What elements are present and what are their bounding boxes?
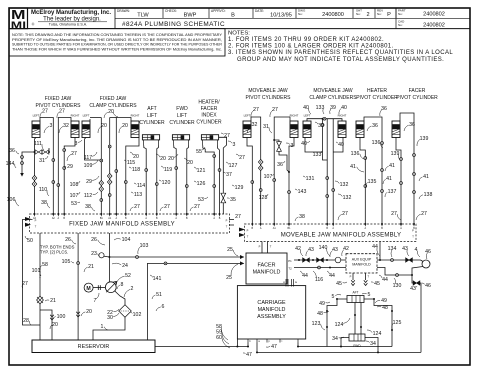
svg-text:CYLINDER: CYLINDER: [196, 120, 222, 126]
svg-text:21: 21: [88, 264, 94, 270]
svg-text:58: 58: [42, 262, 48, 268]
svg-text:P: P: [247, 228, 249, 232]
MJ pivot relief branch: [274, 140, 279, 142]
svg-text:10/13/95: 10/13/95: [270, 13, 292, 19]
wire MJ pivot left bottom: [247, 138, 252, 225]
svg-text:47: 47: [271, 344, 277, 350]
svg-text:144: 144: [6, 161, 15, 167]
svg-text:132: 132: [340, 182, 349, 188]
svg-text:P: P: [350, 275, 352, 279]
svg-text:124: 124: [373, 331, 382, 337]
svg-text:40: 40: [303, 105, 309, 111]
carriage top port marks: [285, 279, 287, 287]
svg-text:29: 29: [86, 179, 92, 185]
wire FJ manifold P column to pump: [108, 233, 110, 282]
wire MJ clamp center drop: [322, 119, 324, 152]
svg-text:DRAWN:: DRAWN:: [117, 9, 130, 13]
svg-text:136: 136: [372, 140, 381, 146]
pivot crossover check valve block: [35, 151, 50, 153]
svg-text:111: 111: [34, 141, 42, 147]
svg-text:2. FOR ITEMS 100 & LARGER: 2. FOR ITEMS 100 & LARGER ORDER KIT A240…: [228, 44, 394, 50]
svg-text:TLW: TLW: [137, 13, 149, 19]
svg-text:5: 5: [332, 294, 335, 300]
svg-text:112: 112: [84, 193, 92, 199]
svg-text:129: 129: [235, 185, 244, 191]
svg-text:3: 3: [75, 141, 78, 147]
svg-text:120: 120: [162, 180, 171, 186]
branch to reservoir with arrows item 100: [40, 310, 52, 340]
svg-text:AFT: AFT: [147, 106, 156, 112]
svg-text:45: 45: [374, 281, 380, 287]
wire AFT lift legs: [144, 146, 146, 215]
wire FJ pivot left top port: [40, 118, 53, 215]
svg-text:101: 101: [32, 268, 41, 274]
svg-text:FWD: FWD: [353, 344, 361, 348]
wire FJ clamp left bottom port: [85, 138, 102, 161]
svg-text:FWD: FWD: [176, 106, 188, 112]
wire FJ clamp right bottom port: [126, 138, 139, 215]
svg-text:55: 55: [196, 149, 202, 155]
svg-text:25: 25: [227, 247, 233, 253]
svg-text:119: 119: [164, 167, 172, 173]
wire facer pivot top: [400, 113, 414, 224]
svg-text:41: 41: [423, 174, 429, 180]
cylinder heater/facer index: [201, 135, 218, 146]
cylinder facer pivot: [392, 121, 400, 138]
cylinder moveable jaw clamp right: [338, 121, 346, 138]
logo box MMI: [9, 8, 27, 29]
svg-text:135: 135: [368, 179, 377, 185]
svg-text:DATE:: DATE:: [255, 9, 264, 13]
svg-text:130: 130: [393, 283, 402, 289]
svg-text:27: 27: [59, 109, 65, 115]
svg-text:20: 20: [101, 123, 107, 129]
carriage circuit wires: [327, 299, 347, 347]
svg-text:45: 45: [336, 281, 342, 287]
svg-text:124: 124: [335, 322, 344, 328]
svg-text:20: 20: [52, 322, 58, 328]
wire heater pivot bottom: [360, 138, 365, 225]
svg-text:27: 27: [342, 211, 348, 217]
svg-text:38: 38: [85, 204, 91, 210]
svg-text:FIXED JAW: FIXED JAW: [100, 96, 127, 102]
svg-text:133: 133: [313, 152, 322, 158]
svg-text:P: P: [387, 12, 391, 18]
wire facer pivot bottom: [396, 138, 401, 225]
svg-text:139: 139: [420, 136, 429, 142]
svg-text:132: 132: [343, 195, 352, 201]
svg-text:23: 23: [91, 251, 97, 257]
svg-text:48: 48: [382, 305, 388, 311]
svg-text:No:: No:: [298, 12, 303, 16]
svg-text:31: 31: [263, 124, 269, 130]
svg-text:121: 121: [197, 168, 206, 174]
svg-text:27: 27: [134, 204, 140, 210]
svg-text:102: 102: [133, 312, 142, 318]
svg-text:2400802: 2400802: [423, 23, 445, 29]
svg-text:P: P: [226, 218, 228, 222]
svg-text:136: 136: [351, 151, 360, 157]
wire heater/facer index legs: [203, 146, 214, 215]
svg-text:27: 27: [42, 109, 48, 115]
MJ manifold stub down to aux line: [379, 242, 381, 261]
moveable jaw manifold assembly box: [244, 224, 416, 242]
svg-text:104: 104: [122, 237, 131, 243]
wire FJ clamp right top port: [116, 118, 131, 215]
svg-text:FIXED JAW: FIXED JAW: [45, 96, 72, 102]
pump item 52: [105, 282, 116, 293]
svg-text:No:: No:: [398, 23, 403, 27]
svg-text:SUBMITTED TO OUTSIDE PARTIE: SUBMITTED TO OUTSIDE PARTIES FOR EXAMINA…: [12, 43, 222, 47]
svg-text:134: 134: [388, 246, 397, 252]
svg-text:MI: MI: [11, 20, 27, 31]
svg-text:20: 20: [86, 309, 92, 315]
check valve item 21 on drain: [37, 296, 44, 304]
svg-text:36: 36: [277, 162, 283, 168]
svg-text:43: 43: [332, 247, 338, 253]
svg-text:RESERVOIR: RESERVOIR: [78, 344, 110, 350]
svg-text:2: 2: [131, 286, 134, 292]
svg-text:106: 106: [7, 197, 16, 203]
svg-text:NOTE: THIS DRAWING AND THE: NOTE: THIS DRAWING AND THE INFORMATION C…: [12, 33, 223, 37]
wire MJ pivot left top: [251, 117, 261, 224]
svg-text:41: 41: [389, 163, 395, 169]
svg-text:20: 20: [168, 156, 174, 162]
svg-text:RIGHT: RIGHT: [71, 113, 80, 117]
svg-text:36: 36: [409, 122, 415, 128]
svg-text:140: 140: [319, 245, 328, 251]
svg-text:CYLINDER: CYLINDER: [139, 120, 165, 126]
svg-text:2400800: 2400800: [322, 12, 344, 18]
svg-text:41: 41: [386, 176, 392, 182]
svg-text:MOVEABLE JAW MANIFOLD ASSEMBLY: MOVEABLE JAW MANIFOLD ASSEMBLY: [281, 232, 402, 238]
drain to reservoir: [93, 317, 125, 340]
svg-text:128: 128: [259, 195, 268, 201]
svg-text:PIVOT CYLINDER: PIVOT CYLINDER: [356, 95, 398, 101]
svg-text:43: 43: [308, 247, 314, 253]
svg-text:3. ITEMS SHOWN IN PARENTHE: 3. ITEMS SHOWN IN PARENTHESIS REFLECT QU…: [228, 50, 453, 56]
svg-text:P: P: [259, 245, 261, 249]
svg-text:McElroy Manufacturing, Inc.: McElroy Manufacturing, Inc.: [31, 10, 111, 16]
svg-text:44: 44: [329, 273, 335, 279]
svg-text:28: 28: [23, 318, 29, 324]
carriage bottom ports: [247, 339, 249, 343]
svg-text:127: 127: [229, 163, 238, 169]
svg-text:P: P: [412, 228, 414, 232]
svg-text:FIXED JAW MANIFOLD ASSEMBLY: FIXED JAW MANIFOLD ASSEMBLY: [69, 222, 175, 228]
svg-text:AUX EQUIP: AUX EQUIP: [352, 258, 372, 262]
svg-text:TYP. (2) PLCS.: TYP. (2) PLCS.: [40, 250, 68, 255]
svg-text:41: 41: [350, 164, 356, 170]
svg-text:CYLINDER: CYLINDER: [169, 120, 195, 126]
aft carriage hose: [347, 296, 364, 303]
wire heater pivot top: [364, 117, 382, 224]
gauge item 23: [104, 255, 109, 258]
wire FJ manifold left P line down: [23, 220, 41, 326]
aux P line right to coupling: [377, 259, 421, 261]
svg-text:NOTES:: NOTES:: [228, 30, 250, 36]
svg-text:43: 43: [410, 286, 416, 292]
svg-text:40: 40: [301, 141, 307, 147]
svg-text:FACER: FACER: [201, 106, 218, 112]
svg-text:27: 27: [164, 204, 170, 210]
cylinder fixed jaw pivot right: [71, 121, 79, 138]
svg-text:108: 108: [70, 182, 79, 188]
wire FJ clamp A1 column: [109, 118, 111, 215]
svg-text:#824A PLUMBING SCHEMATIC: #824A PLUMBING SCHEMATIC: [122, 21, 225, 28]
svg-text:117: 117: [84, 155, 92, 161]
svg-text:39: 39: [330, 105, 336, 111]
svg-text:50: 50: [27, 238, 33, 244]
svg-text:109: 109: [84, 163, 93, 169]
svg-text:126: 126: [197, 181, 206, 187]
wire relief line right of index cylinder: [219, 137, 227, 214]
wire MJ pivot right bottom: [289, 138, 294, 225]
cylinder aft lift: [142, 135, 159, 146]
svg-text:47: 47: [246, 352, 252, 358]
svg-text:39: 39: [318, 123, 324, 129]
svg-text:36: 36: [9, 148, 15, 154]
proprietary note box: [9, 29, 225, 56]
svg-text:6: 6: [162, 304, 165, 310]
fixed jaw manifold assembly box: [30, 214, 230, 233]
svg-text:20: 20: [160, 156, 166, 162]
svg-text:LIFT: LIFT: [177, 113, 187, 119]
wire FJ clamp left column: [100, 118, 102, 215]
svg-text:LEFT: LEFT: [244, 113, 251, 117]
svg-text:FACER: FACER: [258, 263, 276, 269]
left drain chain items 36/144: [22, 152, 35, 173]
svg-text:118: 118: [132, 167, 140, 173]
svg-text:2: 2: [366, 12, 369, 18]
svg-text:53: 53: [71, 201, 77, 207]
svg-text:42: 42: [295, 246, 301, 252]
svg-text:31: 31: [39, 158, 45, 164]
svg-text:30: 30: [107, 315, 113, 321]
svg-text:RIGHT: RIGHT: [290, 113, 299, 117]
svg-text:No:: No:: [377, 12, 382, 16]
svg-text:46: 46: [425, 283, 431, 289]
svg-text:26: 26: [91, 237, 97, 243]
svg-text:27: 27: [194, 204, 200, 210]
svg-text:FACER: FACER: [409, 88, 426, 94]
svg-text:34: 34: [370, 341, 376, 347]
svg-text:T2: T2: [288, 267, 292, 271]
svg-text:40: 40: [338, 142, 344, 148]
aux equip manifold box: [346, 254, 377, 273]
svg-text:29: 29: [67, 164, 73, 170]
svg-text:27: 27: [253, 107, 259, 113]
wire FJ manifold T column: [77, 233, 79, 340]
svg-text:No:: No:: [398, 12, 403, 16]
svg-text:24: 24: [122, 263, 128, 269]
title block outline: [9, 28, 470, 30]
cylinder moveable jaw pivot left: [243, 121, 251, 138]
svg-text:27: 27: [391, 211, 397, 217]
svg-text:PIVOT CYLINDERS: PIVOT CYLINDERS: [246, 95, 292, 101]
svg-text:138: 138: [424, 192, 433, 198]
svg-text:34: 34: [332, 336, 338, 342]
cylinder fixed jaw clamp right: [131, 121, 139, 138]
svg-text:60: 60: [216, 335, 222, 341]
MJ manifold P/T to facer manifold: [261, 242, 263, 254]
svg-text:LEFT: LEFT: [83, 113, 90, 117]
svg-text:MANIFOLD: MANIFOLD: [258, 307, 286, 313]
svg-text:53: 53: [198, 197, 204, 203]
motor-pump shaft: [93, 287, 105, 289]
svg-text:114: 114: [137, 183, 145, 189]
svg-text:35: 35: [230, 197, 236, 203]
svg-text:110: 110: [39, 187, 47, 193]
svg-text:MOVEABLE JAW: MOVEABLE JAW: [313, 88, 353, 94]
svg-text:44: 44: [302, 273, 308, 279]
field boxes row: [162, 8, 164, 18]
pressure line to facer manifold: [109, 256, 243, 258]
svg-text:CHECK:: CHECK:: [165, 9, 177, 13]
svg-text:38: 38: [41, 200, 47, 206]
svg-text:37: 37: [226, 172, 232, 178]
svg-text:CARRIAGE: CARRIAGE: [257, 300, 286, 306]
svg-text:27: 27: [224, 133, 230, 139]
motor M1: [84, 283, 93, 292]
svg-text:131: 131: [306, 176, 315, 182]
svg-text:P1: P1: [288, 259, 292, 263]
wire MJ pivot right top: [274, 117, 290, 224]
svg-text:36: 36: [381, 106, 387, 112]
svg-text:LEFT: LEFT: [304, 113, 311, 117]
fwd carriage hose: [349, 334, 365, 341]
svg-text:51: 51: [156, 292, 162, 298]
svg-text:RIGHT: RIGHT: [131, 113, 140, 117]
svg-text:125: 125: [393, 320, 402, 326]
svg-text:107: 107: [70, 193, 79, 199]
svg-text:27: 27: [272, 107, 278, 113]
wire FJ pivot right top port: [58, 118, 71, 215]
tank return line from facer manifold: [148, 263, 244, 340]
svg-text:3: 3: [233, 142, 236, 148]
aux manifold P T stubs down: [352, 273, 354, 280]
cylinder fixed jaw pivot left: [32, 121, 40, 138]
svg-text:ASSEMBLY: ASSEMBLY: [257, 314, 286, 320]
svg-text:MANIFOLD: MANIFOLD: [253, 270, 281, 276]
svg-text:100: 100: [57, 314, 66, 320]
svg-text:32: 32: [252, 122, 258, 128]
svg-text:APPRV'D:: APPRV'D:: [211, 9, 226, 13]
cylinder moveable jaw clamp left: [303, 121, 311, 138]
svg-text:137: 137: [388, 189, 397, 195]
svg-text:THAN THOSE FOR WHICH IT W: THAN THOSE FOR WHICH IT WAS FURNISHED WI…: [12, 47, 222, 51]
svg-text:103: 103: [140, 243, 149, 249]
svg-text:42: 42: [343, 246, 349, 252]
carriage return lines to reservoir: [155, 343, 248, 347]
svg-text:48: 48: [317, 311, 323, 317]
svg-text:LIFT: LIFT: [147, 113, 157, 119]
cylinder moveable jaw pivot right: [290, 121, 298, 138]
svg-text:20: 20: [122, 123, 128, 129]
svg-text:105: 105: [62, 259, 71, 265]
svg-text:21: 21: [50, 298, 56, 304]
svg-text:B: B: [231, 12, 235, 18]
svg-text:P: P: [35, 218, 37, 222]
svg-text:36: 36: [372, 123, 378, 129]
svg-text:49: 49: [319, 301, 325, 307]
svg-text:MOVEABLE JAW: MOVEABLE JAW: [248, 88, 288, 94]
svg-text:26: 26: [65, 237, 71, 243]
svg-text:5: 5: [368, 292, 371, 298]
svg-text:46: 46: [425, 249, 431, 255]
svg-text:3: 3: [291, 143, 294, 149]
cylinder fwd lift: [172, 135, 189, 146]
svg-text:139: 139: [391, 151, 400, 157]
wire FJ pivot left bottom port: [35, 138, 37, 215]
pump case drain to filter: [115, 291, 125, 305]
svg-text:PROPERTY OF McElroy Manufac: PROPERTY OF McElroy Manufacturing, Inc. …: [12, 38, 222, 42]
svg-text:AFT: AFT: [352, 291, 358, 295]
wire FJ pivot right bottom port: [64, 138, 75, 215]
svg-text:CLAMP CYLINDERS: CLAMP CYLINDERS: [309, 95, 357, 101]
svg-text:123: 123: [312, 321, 321, 327]
svg-text:HEATER: HEATER: [367, 88, 387, 94]
svg-text:115: 115: [127, 160, 135, 166]
svg-text:1: 1: [101, 324, 104, 330]
svg-text:No:: No:: [356, 12, 361, 16]
svg-text:143: 143: [298, 189, 307, 195]
svg-text:52: 52: [125, 273, 131, 279]
wire MJ clamp right column: [332, 119, 334, 224]
svg-text:38: 38: [299, 214, 305, 220]
svg-text:40: 40: [341, 105, 347, 111]
svg-text:GROUP AND MAY NOT INDICATE: GROUP AND MAY NOT INDICATE TOTAL ASSEMBL…: [237, 57, 444, 63]
cylinder fixed jaw clamp left: [82, 121, 90, 138]
svg-text:3: 3: [50, 123, 53, 129]
svg-text:8: 8: [121, 282, 124, 288]
wire FWD lift legs: [174, 146, 176, 215]
svg-text:107: 107: [264, 174, 273, 180]
svg-text:113: 113: [134, 192, 142, 198]
facer manifold box: [246, 253, 287, 284]
svg-text:1. FOR ITEMS 20 THRU 99: 1. FOR ITEMS 20 THRU 99 ORDER KIT A24008…: [228, 37, 384, 43]
svg-text:BWP: BWP: [184, 13, 197, 19]
svg-text:44: 44: [382, 277, 388, 283]
svg-text:49: 49: [381, 298, 387, 304]
svg-text:M: M: [86, 286, 90, 292]
wire MJ clamp bottoms: [305, 138, 323, 153]
svg-text:27: 27: [22, 281, 28, 287]
wire FJ manifold drain line: [39, 233, 41, 340]
svg-text:27: 27: [421, 211, 427, 217]
svg-text:PIVOT CYLINDER: PIVOT CYLINDER: [396, 95, 438, 101]
wire MJ clamp crossover: [307, 119, 342, 121]
reservoir: [32, 340, 155, 353]
cylinder heater pivot: [356, 121, 364, 138]
svg-text:LEFT: LEFT: [33, 113, 40, 117]
svg-text:27: 27: [235, 214, 241, 220]
filter item 102: [119, 305, 132, 317]
svg-text:20: 20: [187, 160, 193, 166]
svg-text:141: 141: [153, 276, 162, 282]
svg-text:Tulsa, Oklahoma U.S.A.: Tulsa, Oklahoma U.S.A.: [49, 23, 87, 27]
svg-text:27: 27: [71, 151, 77, 157]
aux T line right and down: [377, 268, 412, 276]
svg-text:MANIFOLD: MANIFOLD: [352, 262, 371, 266]
svg-text:2400802: 2400802: [423, 11, 445, 17]
carriage manifold assembly box: [237, 286, 305, 339]
svg-text:32: 32: [63, 123, 69, 129]
wire MJ clamp left column: [326, 119, 328, 224]
svg-text:HEATER/: HEATER/: [198, 100, 220, 106]
svg-text:INDEX: INDEX: [201, 113, 217, 119]
svg-text:27: 27: [239, 155, 245, 161]
